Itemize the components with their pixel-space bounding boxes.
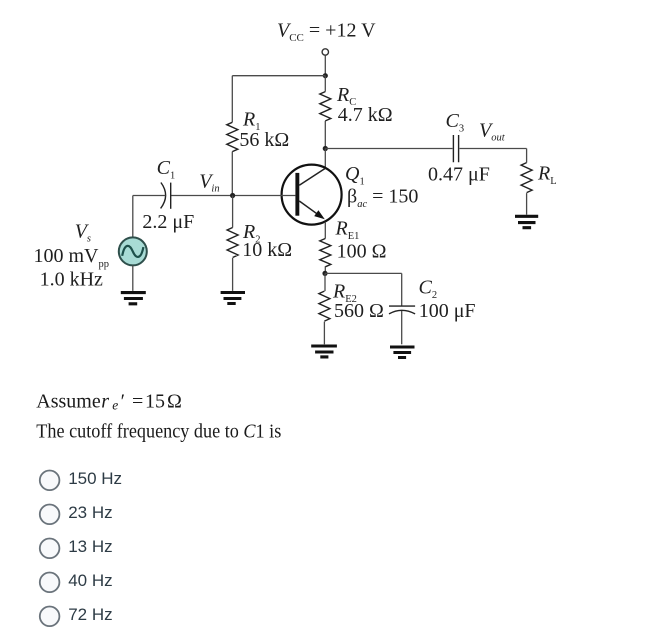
wire RC to collector node <box>324 121 326 149</box>
wire collector node down to transistor <box>324 149 326 169</box>
wire RE2 to ground <box>323 322 325 345</box>
radio option 150 Hz <box>40 471 60 491</box>
svg-text:2.2 μF: 2.2 μF <box>142 211 194 233</box>
wire node down to RE2 <box>324 273 326 291</box>
wire top rail horizontal <box>232 75 325 77</box>
wire RE1 to node <box>324 266 326 273</box>
wire source vertical <box>132 196 134 238</box>
radio option 40 Hz <box>40 573 60 593</box>
capacitor C1 <box>161 183 166 209</box>
Vcc terminal <box>322 49 328 55</box>
ground (C2) <box>390 347 415 358</box>
wire down to RL <box>526 149 528 163</box>
resistor RC <box>320 92 331 121</box>
svg-text:4.7 kΩ: 4.7 kΩ <box>338 104 393 126</box>
svg-text:150 Hz: 150 Hz <box>68 469 122 488</box>
radio option 72 Hz <box>40 607 60 627</box>
resistor RE1 <box>320 239 331 267</box>
wire Vcc rail down to RC <box>324 76 326 92</box>
radio option 23 Hz <box>40 505 60 525</box>
wire RL to ground <box>526 193 528 215</box>
wire node to C2 branch <box>325 272 402 274</box>
node Vin junction <box>230 193 235 198</box>
svg-text:23 Hz: 23 Hz <box>68 503 112 522</box>
svg-text:100 μF: 100 μF <box>419 300 476 322</box>
wire collector node to C3 <box>325 148 452 150</box>
ground (RL) <box>515 216 538 227</box>
resistor R2 <box>227 228 238 258</box>
svg-text:56 kΩ: 56 kΩ <box>239 129 289 151</box>
wire R1 to input rail <box>231 152 233 196</box>
svg-text:0.47 μF: 0.47 μF <box>428 163 490 185</box>
resistor RL <box>521 163 532 193</box>
source Vs <box>119 237 147 265</box>
wire C2 to ground <box>401 311 403 344</box>
resistor R1 <box>227 122 238 151</box>
node top rail junction <box>323 73 328 78</box>
ground (R2) <box>221 293 245 304</box>
resistor RE2 <box>319 291 330 321</box>
wire Vcc terminal to top rail <box>324 55 326 75</box>
wire R2 top <box>232 196 234 228</box>
svg-text:100 mVpp: 100 mVpp <box>34 245 110 270</box>
wire top rail down to R1 <box>231 76 233 123</box>
svg-text:560 Ω: 560 Ω <box>334 300 384 322</box>
node emitter junction <box>322 271 327 276</box>
capacitor C2 <box>389 305 415 307</box>
wire C3 to RL <box>460 148 527 150</box>
svg-text:13 Hz: 13 Hz <box>68 537 112 556</box>
svg-text:The cutoff frequency due to C1: The cutoff frequency due to C1 is <box>36 421 281 443</box>
capacitor C3 <box>453 135 458 162</box>
ground (source) <box>121 293 146 304</box>
ground (RE2) <box>311 346 337 357</box>
wire R2 to ground <box>232 258 234 291</box>
svg-text:100 Ω: 100 Ω <box>337 241 387 263</box>
wire emitter down <box>324 222 326 239</box>
svg-text:40 Hz: 40 Hz <box>68 571 112 590</box>
svg-text:10 kΩ: 10 kΩ <box>242 239 292 261</box>
wire source to ground <box>132 265 134 291</box>
wire source to C1 <box>133 195 166 197</box>
wire C2 branch down <box>401 273 403 306</box>
node collector output <box>323 146 328 151</box>
radio option 13 Hz <box>40 539 60 559</box>
transistor Q1 <box>282 165 342 225</box>
input wire C1 to base <box>171 195 296 197</box>
svg-text:72 Hz: 72 Hz <box>68 605 112 624</box>
svg-text:1.0 kHz: 1.0 kHz <box>40 269 103 291</box>
